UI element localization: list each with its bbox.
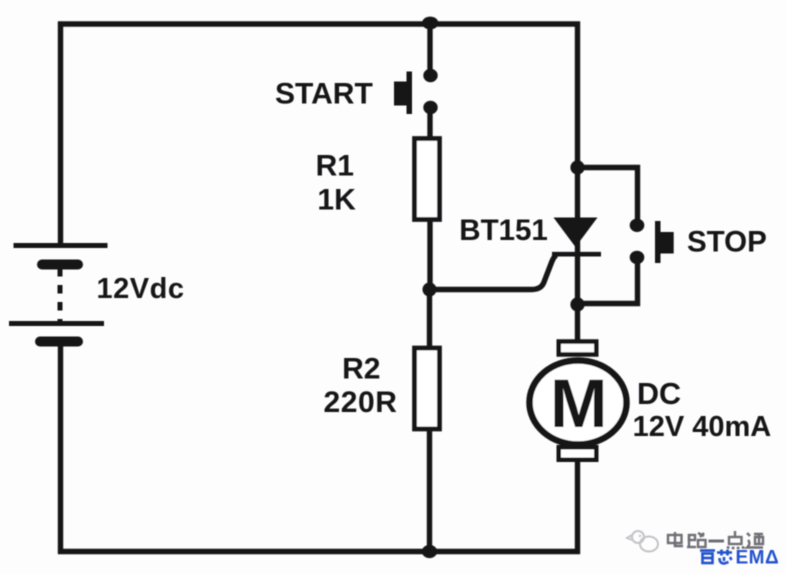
wire R1 to gate node — [427, 219, 432, 292]
svg-text:M: M — [550, 365, 607, 442]
svg-text:220R: 220R — [323, 386, 397, 419]
svg-text:DC: DC — [637, 377, 681, 411]
wire right branch (top rail through SCR to motor) — [575, 22, 580, 342]
start button actuator cap — [394, 82, 407, 106]
svg-text:1K: 1K — [317, 183, 356, 216]
motor M1 top terminal — [559, 342, 597, 355]
node junction SCR anode / stop branch — [570, 160, 584, 174]
start button actuator plunger bar — [407, 72, 413, 115]
watermark text dian (dot) — [728, 531, 743, 548]
svg-text:START: START — [275, 78, 373, 111]
watermark text yi (one) — [709, 540, 725, 543]
node junction gate / R1 / R2 — [423, 283, 437, 297]
battery B1 plate short bottom — [35, 337, 83, 347]
wire stop branch lower — [578, 261, 638, 304]
battery B1 plate long top — [14, 243, 108, 248]
wire bottom rail — [58, 549, 580, 554]
thyristor BT151 anode triangle — [554, 218, 598, 248]
wire stop branch upper — [578, 168, 638, 222]
watermark text baixin (blue) — [700, 550, 732, 564]
node junction SCR cathode / stop branch — [570, 297, 584, 311]
watermark text dian (electric) — [668, 532, 683, 547]
wire left rail lower (battery to bottom rail) — [58, 345, 63, 554]
resistor R2 — [415, 348, 440, 429]
watermark text lu (road) — [687, 533, 706, 547]
stop switch upper terminal — [630, 219, 645, 232]
stop button actuator cap — [661, 232, 674, 254]
node junction top rail / start branch — [422, 17, 438, 30]
svg-text:R2: R2 — [342, 352, 380, 385]
stop switch lower terminal — [630, 251, 645, 264]
wire start branch from top rail — [427, 22, 432, 73]
motor M1 body — [530, 361, 627, 445]
wire top rail — [58, 21, 580, 26]
svg-text:STOP: STOP — [687, 226, 767, 259]
wire motor to bottom rail — [575, 458, 580, 554]
svg-text:EMΔ: EMΔ — [736, 548, 780, 569]
wire start switch to R1 — [427, 110, 432, 140]
svg-text:12Vdc: 12Vdc — [97, 273, 185, 305]
node junction bottom rail / R2 branch — [422, 545, 437, 558]
wire R2 to bottom rail — [427, 429, 432, 552]
watermark bird logo — [627, 531, 658, 552]
start switch upper terminal — [423, 69, 437, 82]
watermark text tong (through) — [747, 533, 763, 548]
battery B1 plate short top — [37, 260, 83, 270]
start switch lower terminal — [423, 101, 437, 114]
resistor R1 — [415, 139, 440, 220]
motor M1 bottom terminal — [559, 447, 597, 460]
thyristor BT151 cathode bar — [552, 252, 601, 257]
svg-text:12V 40mA: 12V 40mA — [633, 411, 772, 443]
stop button actuator plunger bar — [655, 221, 661, 263]
wire gate node to R2 — [427, 289, 432, 350]
wire left rail upper (top rail to battery) — [58, 22, 63, 247]
battery B1 dashed cell link — [58, 268, 63, 324]
svg-text:BT151: BT151 — [459, 214, 548, 247]
battery B1 plate long bottom — [9, 321, 104, 326]
svg-text:R1: R1 — [316, 149, 354, 182]
thyristor gate wire — [430, 255, 557, 290]
